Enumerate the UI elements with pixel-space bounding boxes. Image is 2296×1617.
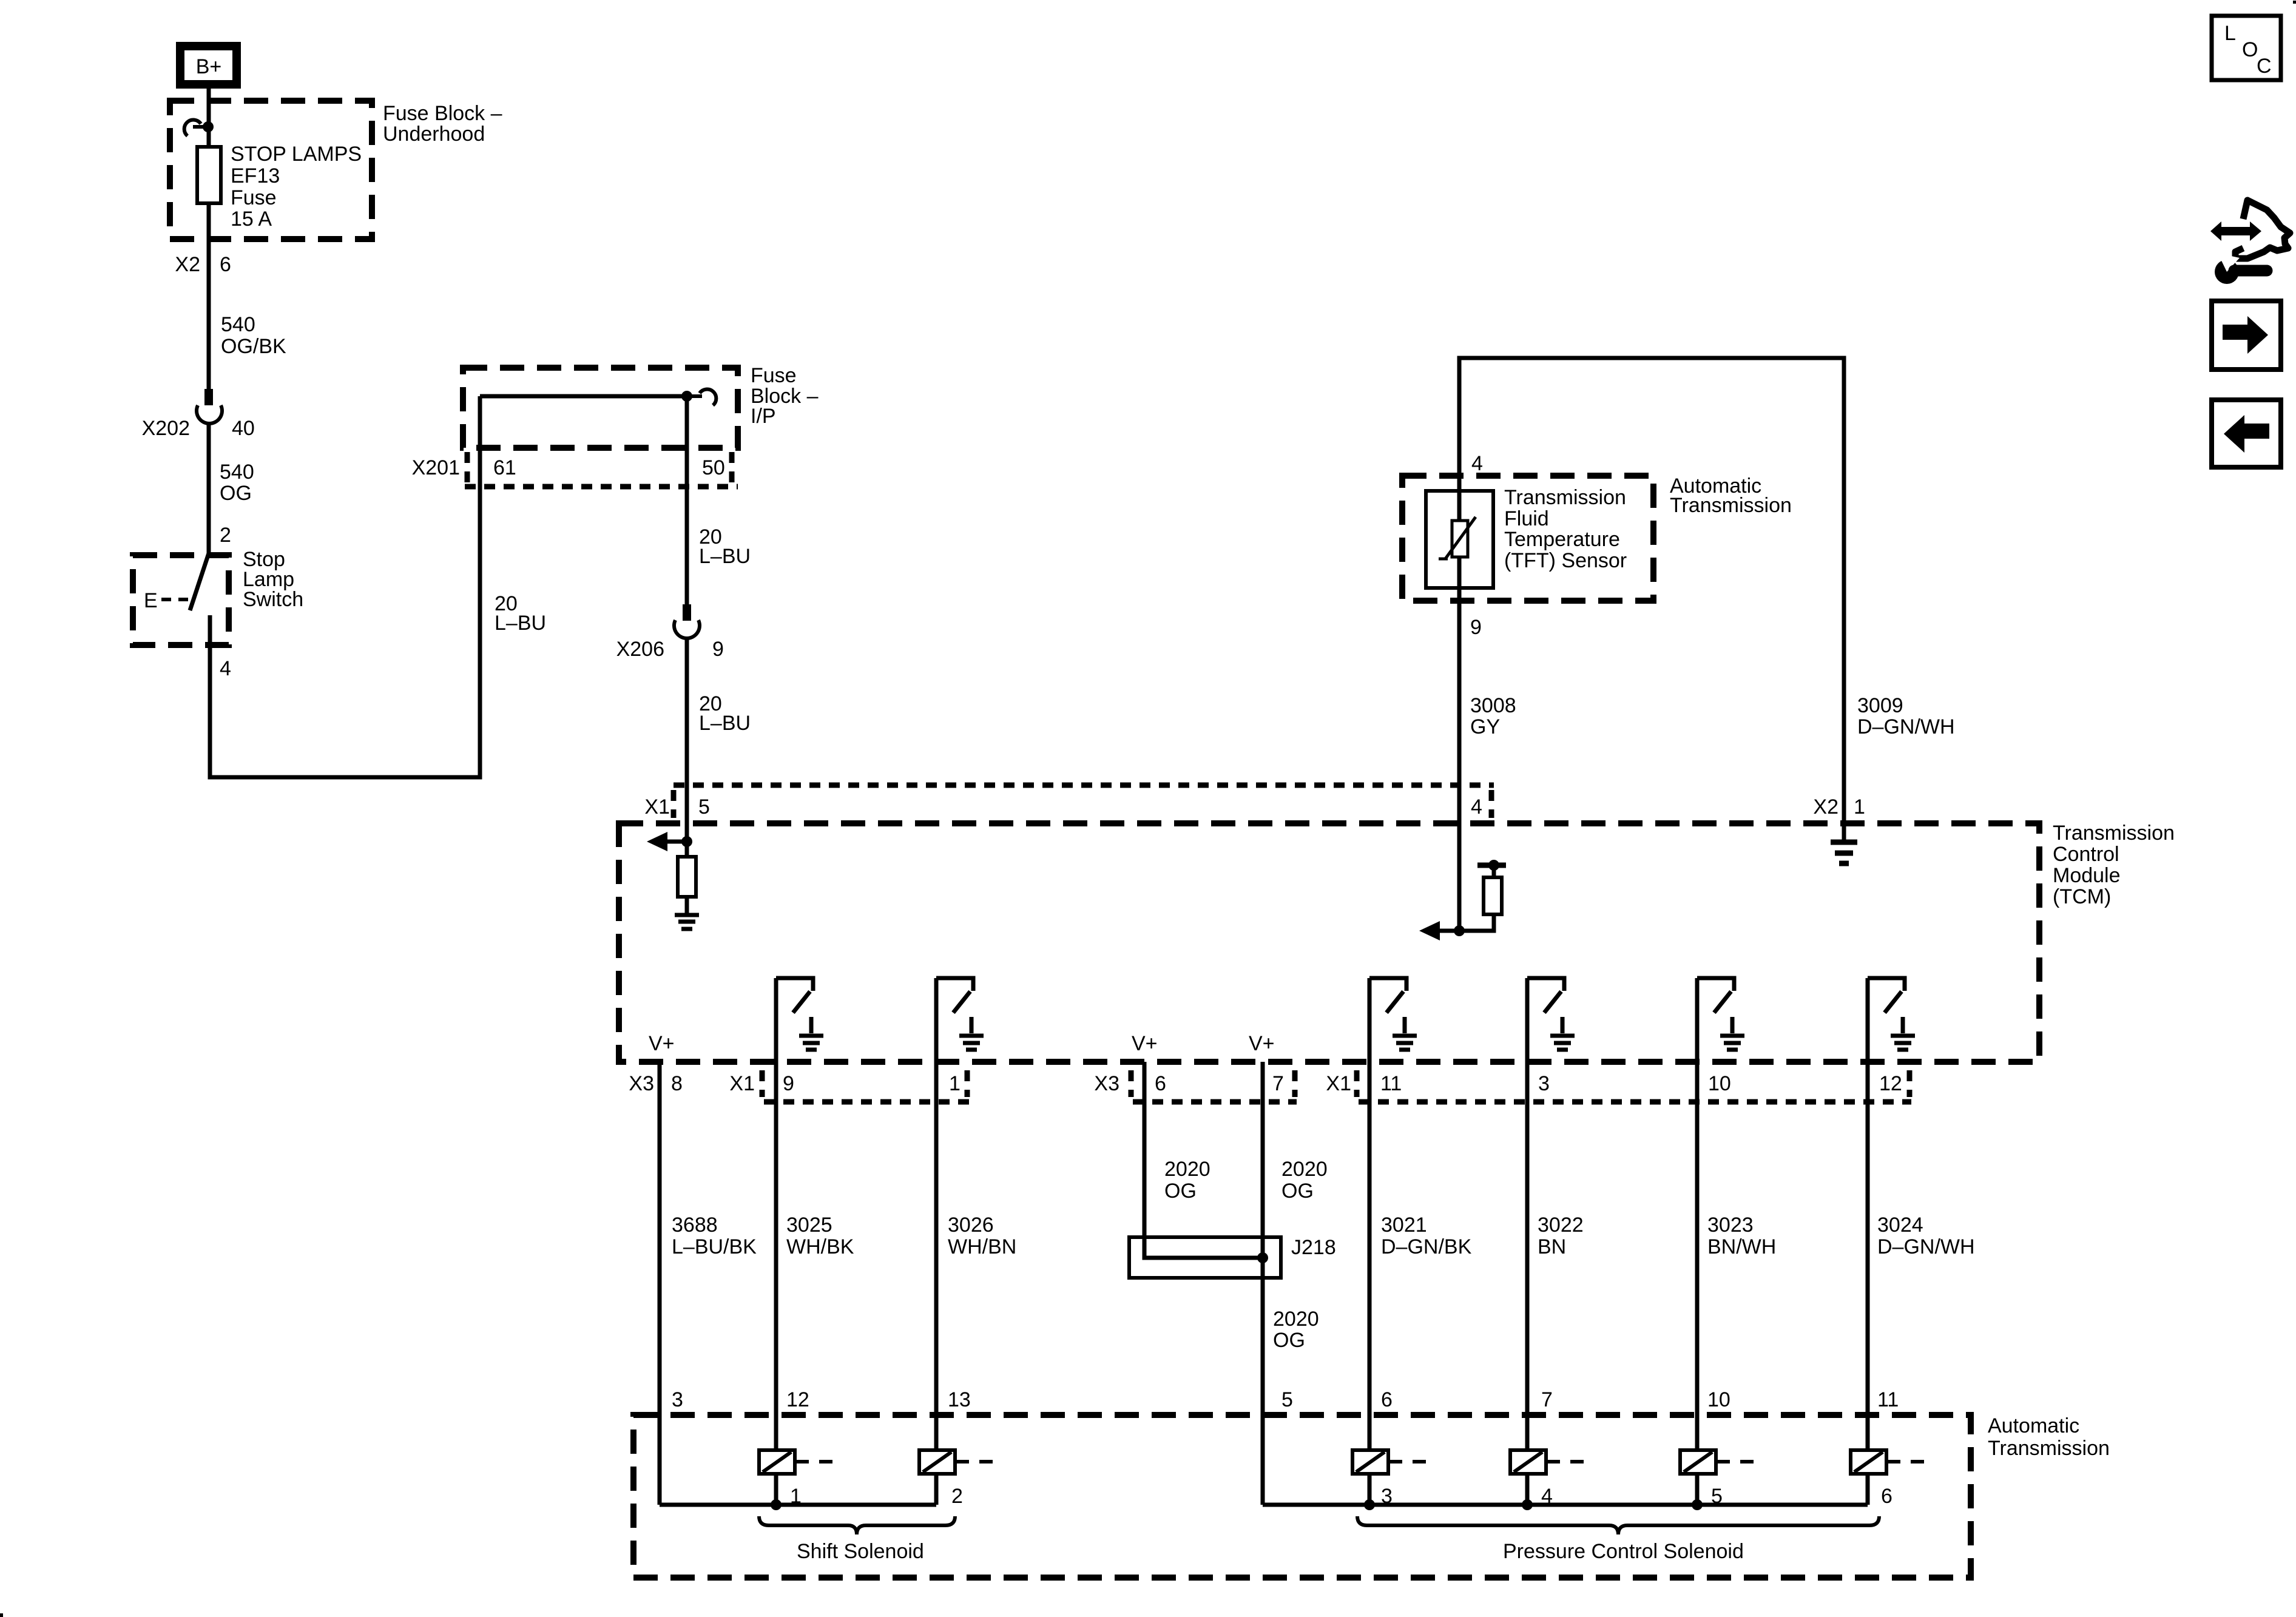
shift solenoid B coil: [919, 1450, 993, 1474]
X1 pin 5 labels: [644, 795, 710, 819]
diagnostic icon: wrench: [2215, 253, 2267, 284]
wire label 20 L-BU (riser): [495, 592, 546, 635]
TCM driver switch Q6 (X1-12) with ground: [1868, 978, 1915, 1050]
diagnostic icon: connector outline: [2235, 200, 2290, 258]
fuse clip hook I/P: [681, 390, 716, 405]
svg-text:11: 11: [1877, 1388, 1899, 1411]
svg-text:Transmission: Transmission: [1504, 486, 1626, 509]
svg-text:L–BU/BK: L–BU/BK: [672, 1235, 757, 1258]
svg-text:EF13: EF13: [231, 164, 280, 187]
wire label 2020 OG (X3-6): [1164, 1158, 1210, 1203]
wire label 540 OG/BK: [221, 313, 286, 358]
svg-text:X201: X201: [412, 456, 460, 479]
svg-text:L: L: [2224, 22, 2236, 45]
wire label 540 OG: [220, 461, 254, 505]
TCM driver switch Q4 (X1-3) with ground: [1527, 978, 1575, 1050]
svg-text:12: 12: [786, 1388, 809, 1411]
Automatic Transmission dashed box (TFT): [1402, 476, 1653, 601]
svg-text:X1: X1: [729, 1072, 755, 1095]
TCM internal signal arrow (3008): [1419, 921, 1459, 940]
ground (TCM X2-1): [1831, 823, 1857, 863]
svg-text:2020: 2020: [1164, 1158, 1210, 1181]
svg-text:Fuse: Fuse: [751, 364, 797, 387]
nav icon: left arrow box: [2212, 400, 2281, 467]
wire X206 to TCM X1-5: [685, 637, 689, 843]
in-line connector X206: [616, 604, 724, 661]
wire X1-12 to PC solenoid (3024 D-GN/WH): [1866, 978, 1870, 1505]
connector X1 row pins 11,3,10,12 labels and dotted row: [1326, 1070, 1911, 1102]
svg-text:X2: X2: [1813, 795, 1838, 819]
ground (TCM internal, X1-5): [675, 915, 699, 929]
svg-text:X206: X206: [616, 638, 664, 661]
TFT thermistor: [1439, 517, 1476, 559]
svg-text:(TCM): (TCM): [2053, 885, 2111, 908]
svg-text:2: 2: [951, 1485, 963, 1508]
junction dot shift bus: [771, 1499, 782, 1510]
svg-text:4: 4: [1541, 1485, 1553, 1508]
svg-text:3024: 3024: [1877, 1214, 1923, 1237]
svg-text:Fluid: Fluid: [1504, 507, 1549, 530]
connector X2 pin 6 labels: [175, 253, 231, 276]
wire X3-7 to transmission pin 5 (2020 OG): [1261, 1062, 1265, 1505]
svg-text:E: E: [144, 589, 158, 612]
svg-text:V+: V+: [1132, 1032, 1158, 1055]
svg-text:3021: 3021: [1381, 1214, 1427, 1237]
wire label 3023 BN/WH: [1707, 1214, 1776, 1258]
svg-text:BN: BN: [1538, 1235, 1566, 1258]
Stop Lamp Switch dashed box: [133, 555, 229, 645]
svg-text:O: O: [2242, 38, 2258, 61]
in-line connector X202: [142, 389, 255, 440]
svg-text:Pressure Control Solenoid: Pressure Control Solenoid: [1503, 1540, 1744, 1563]
wire label 3024 D-GN/WH: [1877, 1214, 1975, 1258]
svg-text:12: 12: [1879, 1072, 1902, 1095]
wire label 3008 GY: [1470, 694, 1516, 738]
svg-text:OG: OG: [1281, 1180, 1314, 1203]
svg-text:5: 5: [698, 795, 710, 819]
nav icon: right arrow box: [2212, 301, 2281, 370]
svg-text:13: 13: [948, 1388, 971, 1411]
label Fuse Block Underhood: [383, 102, 502, 146]
TCM internal node 3008: junction dot: [1454, 925, 1465, 936]
svg-text:61: 61: [493, 456, 516, 479]
svg-text:V+: V+: [649, 1032, 675, 1055]
wire X202 to stop lamp switch: [207, 422, 211, 553]
svg-text:7: 7: [1272, 1072, 1284, 1095]
svg-text:3: 3: [1538, 1072, 1550, 1095]
svg-text:Underhood: Underhood: [383, 123, 485, 146]
svg-text:OG: OG: [1273, 1329, 1305, 1352]
svg-text:D–GN/BK: D–GN/BK: [1381, 1235, 1472, 1258]
svg-text:6: 6: [220, 253, 231, 276]
svg-text:1: 1: [1854, 795, 1865, 819]
svg-text:10: 10: [1708, 1072, 1731, 1095]
splice J218 box: [1129, 1236, 1336, 1278]
svg-text:Module: Module: [2053, 864, 2121, 887]
connector X3 row pins 6,7 labels and dotted row: [1094, 1070, 1297, 1102]
B+ battery terminal box: [180, 46, 237, 84]
svg-text:9: 9: [712, 638, 724, 661]
svg-text:D–GN/WH: D–GN/WH: [1857, 715, 1955, 738]
svg-text:(TFT) Sensor: (TFT) Sensor: [1504, 549, 1627, 572]
svg-text:3: 3: [1381, 1485, 1393, 1508]
junction dot PC bus 3: [1692, 1499, 1703, 1510]
label STOP LAMPS EF13 Fuse 15 A: [231, 143, 362, 231]
pressure control solenoid coil 2: [1510, 1450, 1584, 1474]
svg-text:X1: X1: [1326, 1072, 1351, 1095]
svg-text:3008: 3008: [1470, 694, 1516, 717]
svg-text:1: 1: [790, 1485, 802, 1508]
svg-text:GY: GY: [1470, 715, 1500, 738]
label Automatic Transmission (bottom): [1988, 1414, 2110, 1460]
label Fuse Block I/P: [751, 364, 819, 428]
svg-text:J218: J218: [1291, 1236, 1336, 1259]
svg-text:3688: 3688: [672, 1214, 718, 1237]
wire label 20 L-BU (pin 50): [699, 525, 751, 568]
svg-text:X3: X3: [629, 1072, 654, 1095]
svg-text:BN/WH: BN/WH: [1707, 1235, 1776, 1258]
connector X201 row: labels 61 and 50: [412, 456, 725, 479]
svg-text:X202: X202: [142, 417, 190, 440]
svg-text:540: 540: [220, 461, 254, 484]
svg-text:L–BU: L–BU: [699, 712, 751, 735]
wire label 2020 OG (X3-7): [1281, 1158, 1328, 1203]
svg-text:X1: X1: [644, 795, 670, 819]
wire label 2020 OG (below J218): [1273, 1308, 1319, 1352]
page mark top right: [2293, 1, 2296, 4]
svg-text:Fuse Block –: Fuse Block –: [383, 102, 502, 125]
svg-text:B+: B+: [196, 55, 222, 78]
Fuse Block Underhood dashed box: [170, 101, 372, 239]
wire label 3021 D-GN/BK: [1381, 1214, 1472, 1258]
fuse clip hook: [184, 120, 214, 136]
svg-text:OG: OG: [220, 482, 252, 505]
svg-text:2020: 2020: [1281, 1158, 1328, 1181]
TCM connector X1 top row dotted line: [674, 785, 1494, 818]
svg-text:Automatic: Automatic: [1988, 1414, 2079, 1437]
svg-text:6: 6: [1881, 1485, 1893, 1508]
wire pin 50 down to X206: [685, 396, 689, 604]
Transmission Control Module TCM dashed box: [619, 823, 2039, 1062]
page mark bottom left: [0, 1613, 3, 1617]
fuse EF13 15A: [197, 147, 221, 203]
connector X3 pin 8 labels: [629, 1072, 683, 1095]
svg-text:V+: V+: [1249, 1032, 1275, 1055]
svg-text:2020: 2020: [1273, 1308, 1319, 1331]
svg-text:3: 3: [672, 1388, 683, 1411]
wire X3-6 to splice J218 (2020 OG): [1144, 1062, 1263, 1258]
svg-text:I/P: I/P: [751, 405, 776, 428]
svg-text:3026: 3026: [948, 1214, 994, 1237]
pressure control solenoid coil 3: [1680, 1450, 1754, 1474]
svg-text:WH/BK: WH/BK: [786, 1235, 854, 1258]
TCM internal node X1-5: junction dot: [681, 836, 692, 847]
TCM driver switch Q3 (X1-11) with ground: [1369, 978, 1417, 1050]
diagnostic icon: double arrow: [2210, 221, 2261, 241]
wire B+ to fuse to X202: [207, 89, 211, 389]
TFT sensor loop top wire: [1459, 358, 1844, 823]
svg-text:3025: 3025: [786, 1214, 832, 1237]
junction dot PC bus 2: [1522, 1499, 1533, 1510]
wire X1-10 to PC solenoid (3023 BN/WH): [1695, 978, 1700, 1505]
svg-text:540: 540: [221, 313, 255, 336]
junction dot PC bus 1: [1364, 1499, 1375, 1510]
svg-text:7: 7: [1541, 1388, 1553, 1411]
wire X1-1 to shift solenoid B (3026 WH/BN): [934, 978, 939, 1505]
pressure control solenoid feed bus: [1263, 1503, 1868, 1507]
svg-text:Transmission: Transmission: [2053, 822, 2175, 845]
TFT sensor label: [1504, 486, 1627, 572]
wire X1-11 to PC solenoid (3021 D-GN/BK): [1368, 978, 1372, 1505]
svg-text:X2: X2: [175, 253, 200, 276]
svg-text:Shift Solenoid: Shift Solenoid: [797, 1540, 924, 1563]
Automatic Transmission dashed box (bottom): [633, 1415, 1971, 1578]
TFT sensor outer box: [1426, 491, 1493, 588]
brace pressure control solenoid group: [1357, 1516, 1879, 1534]
svg-text:Transmission: Transmission: [1988, 1437, 2110, 1460]
X2 pin 1 labels: [1813, 795, 1865, 819]
svg-text:Control: Control: [2053, 843, 2119, 866]
svg-text:4: 4: [1471, 795, 1482, 819]
svg-text:WH/BN: WH/BN: [948, 1235, 1016, 1258]
svg-text:OG/BK: OG/BK: [221, 335, 286, 358]
svg-text:OG: OG: [1164, 1180, 1197, 1203]
svg-text:STOP LAMPS: STOP LAMPS: [231, 143, 362, 166]
svg-text:1: 1: [949, 1072, 961, 1095]
wire label 20 L-BU (to TCM): [699, 692, 751, 735]
shift solenoid return bus: [660, 1503, 936, 1507]
junction dot J218: [1257, 1252, 1268, 1263]
svg-text:10: 10: [1707, 1388, 1730, 1411]
X201 row ticks and dotted bottom: [465, 452, 738, 487]
wire X1-3 to PC solenoid (3022 BN): [1525, 978, 1530, 1505]
svg-text:9: 9: [1470, 616, 1482, 639]
svg-text:15 A: 15 A: [231, 208, 272, 231]
LOC reference box: [2212, 16, 2281, 80]
wire through TFT sensor: [1457, 491, 1462, 931]
svg-text:D–GN/WH: D–GN/WH: [1877, 1235, 1975, 1258]
fuse block I/P internal bus wire: [480, 394, 687, 399]
pressure control solenoid coil 1: [1352, 1450, 1426, 1474]
svg-text:9: 9: [783, 1072, 794, 1095]
svg-text:5: 5: [1711, 1485, 1723, 1508]
svg-text:5: 5: [1281, 1388, 1293, 1411]
svg-text:6: 6: [1155, 1072, 1166, 1095]
svg-text:Temperature: Temperature: [1504, 528, 1620, 551]
Fuse Block I/P dashed box: [463, 368, 738, 448]
TCM driver switch Q5 (X1-10) with ground: [1697, 978, 1744, 1050]
svg-text:X3: X3: [1094, 1072, 1119, 1095]
brace shift solenoid group: [759, 1516, 955, 1534]
connector X1 row pins 9,1 labels and dotted row: [729, 1070, 969, 1102]
svg-text:4: 4: [220, 657, 231, 680]
TCM internal signal arrow (left): [647, 832, 687, 851]
TCM internal pull-up resistor R2: [1459, 860, 1506, 931]
svg-text:Transmission: Transmission: [1670, 494, 1792, 517]
svg-text:L–BU: L–BU: [495, 612, 546, 635]
stop lamp switch blade: [190, 553, 209, 610]
wire label 3022 BN: [1538, 1214, 1584, 1258]
svg-text:4: 4: [1471, 452, 1483, 475]
switch actuator E: [144, 589, 192, 612]
svg-text:3022: 3022: [1538, 1214, 1584, 1237]
svg-text:3009: 3009: [1857, 694, 1903, 717]
TCM driver switch Q2 (X1-1) with ground: [936, 978, 984, 1050]
wire label 3688 L-BU/BK: [672, 1214, 757, 1258]
stop lamp switch label: [243, 548, 303, 611]
svg-text:8: 8: [671, 1072, 683, 1095]
wire label 3026 WH/BN: [948, 1214, 1016, 1258]
wire label 3009 D-GN/WH: [1857, 694, 1955, 738]
wire X1-9 to shift solenoid A (3025 WH/BK): [774, 978, 778, 1505]
label Automatic Transmission (TFT): [1670, 474, 1792, 517]
svg-text:Switch: Switch: [243, 588, 303, 611]
TCM driver switch Q1 (X1-9) with ground: [776, 978, 823, 1050]
TCM label: [2053, 822, 2175, 908]
svg-text:C: C: [2257, 55, 2272, 78]
svg-text:6: 6: [1381, 1388, 1393, 1411]
shift solenoid A coil: [759, 1450, 832, 1474]
svg-text:40: 40: [232, 417, 255, 440]
svg-text:L–BU: L–BU: [699, 545, 751, 568]
svg-text:50: 50: [702, 456, 725, 479]
wire X3-8 to transmission pin 3 (3688 L-BU/BK): [658, 1062, 662, 1505]
svg-text:11: 11: [1380, 1072, 1402, 1095]
pressure control solenoid coil 4: [1851, 1450, 1924, 1474]
TCM internal pull-down resistor R1: [678, 842, 696, 914]
svg-text:2: 2: [220, 524, 231, 547]
svg-text:Fuse: Fuse: [231, 186, 277, 209]
svg-text:3023: 3023: [1707, 1214, 1754, 1237]
wire switch to fuse block I/P pin 61: [210, 396, 480, 777]
wire label 3025 WH/BK: [786, 1214, 854, 1258]
